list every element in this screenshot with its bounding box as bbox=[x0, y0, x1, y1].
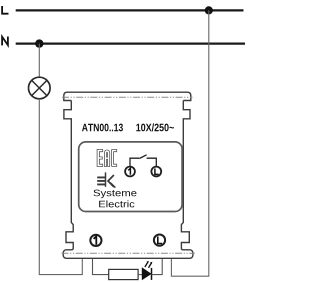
wire terminal 1 to resistor bbox=[93, 258, 109, 274]
wire L down to terminal L loop bbox=[171, 10, 208, 276]
node N label bbox=[2, 37, 8, 46]
label ATN00..13 bbox=[82, 124, 123, 132]
wire LED to terminal L bbox=[152, 258, 163, 274]
EAC mark bbox=[97, 149, 117, 166]
wire N dot to lamp bbox=[38, 44, 40, 78]
device terminal L bbox=[154, 235, 165, 246]
inner schematic terminal L bbox=[151, 167, 161, 177]
device front label plate bbox=[79, 142, 182, 212]
lamp E1 bbox=[29, 77, 51, 99]
junction dot on L bbox=[205, 6, 213, 14]
certification mark 2 bbox=[97, 172, 115, 187]
label Systeme bbox=[94, 190, 137, 199]
junction dot on N bbox=[35, 39, 43, 47]
inner schematic terminal 1 bbox=[125, 167, 135, 177]
node L label bbox=[2, 6, 8, 14]
label 10X/250~ bbox=[136, 123, 174, 131]
device U1 top cap bbox=[64, 92, 191, 100]
LED D1 bbox=[142, 261, 152, 280]
label Electric bbox=[99, 200, 134, 207]
wire N line bbox=[16, 42, 245, 44]
device bottom centerline bbox=[62, 252, 195, 254]
device top centerline bbox=[62, 96, 193, 98]
wire L line bbox=[16, 9, 244, 11]
wire lamp down and to device terminal 1 bbox=[39, 99, 82, 275]
inner schematic switch bbox=[130, 155, 156, 167]
device terminal 1 bbox=[90, 235, 101, 246]
wire resistor to LED bbox=[138, 274, 142, 276]
device U1 body outline bbox=[63, 101, 193, 259]
resistor R1 bbox=[109, 269, 138, 279]
